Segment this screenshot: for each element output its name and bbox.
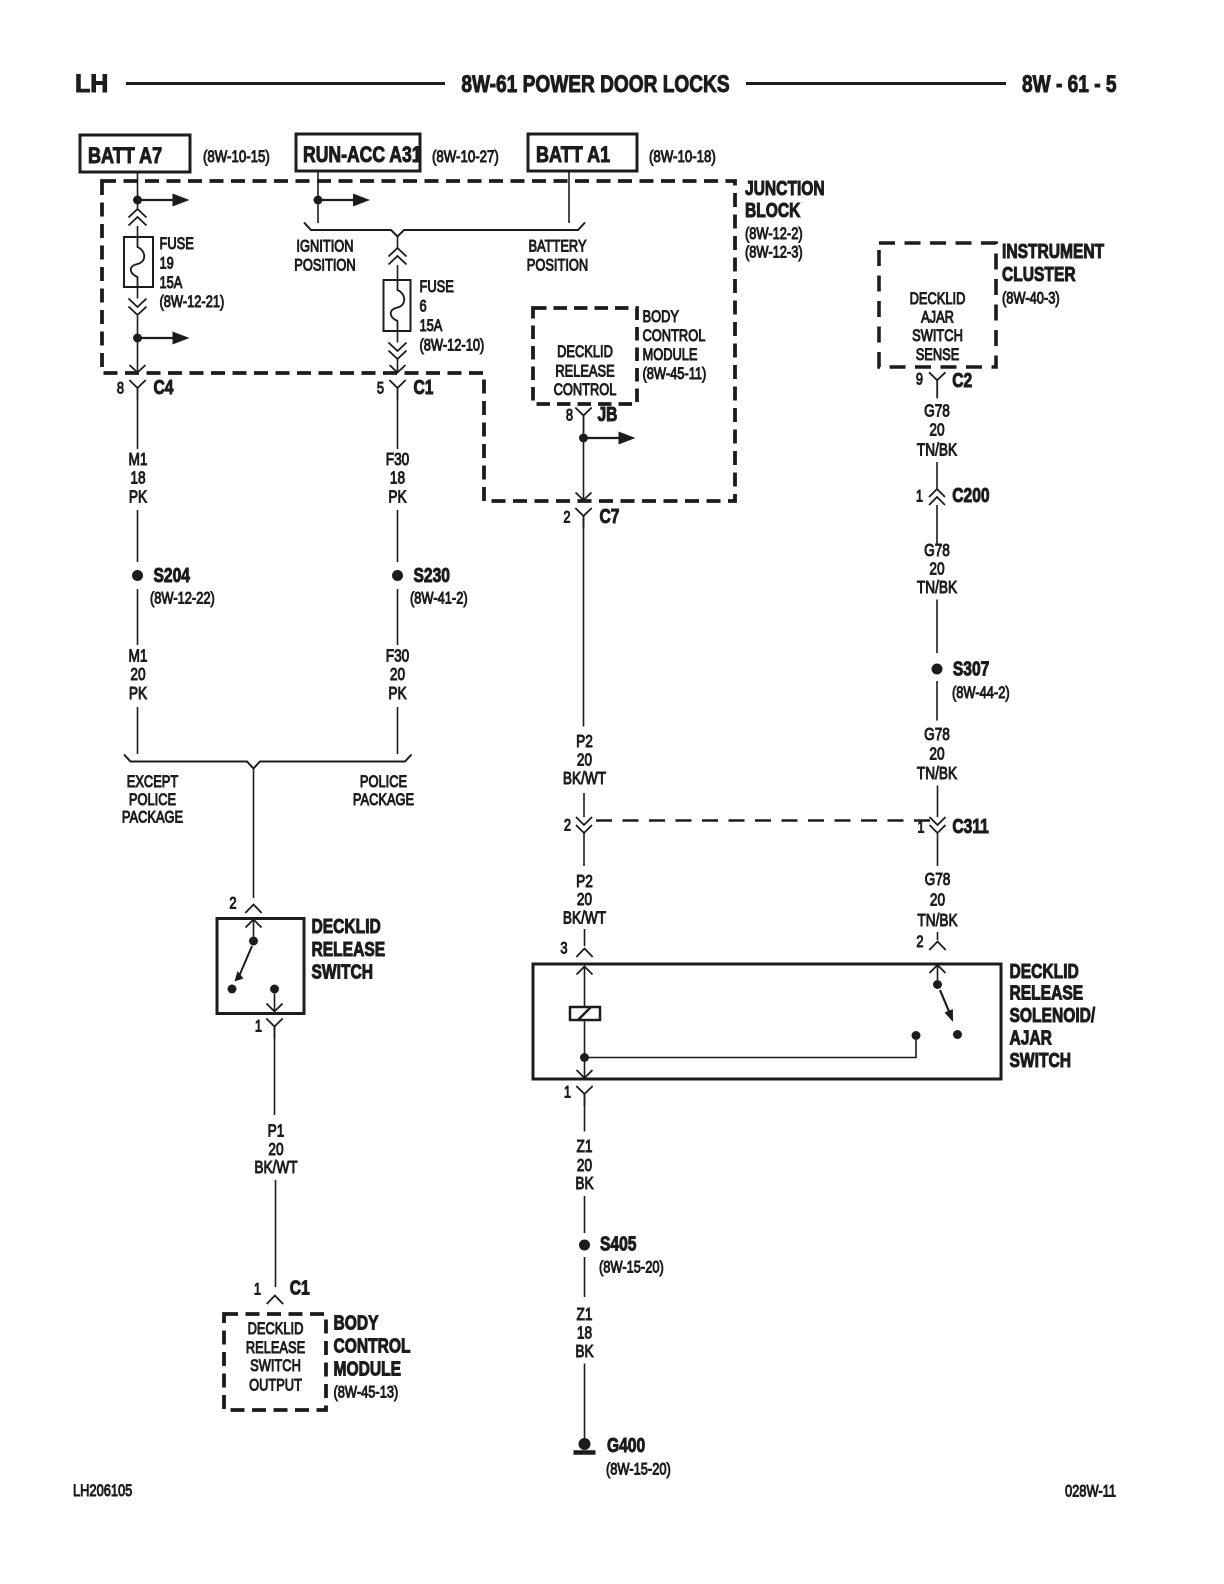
wire [275,1180,277,1287]
svg-text:20: 20 [577,891,592,910]
connector C1 pin 5 [377,376,434,400]
wire [397,707,399,754]
source box BATT A7 [80,135,190,172]
connector C311 pin 1 chevrons [917,815,988,837]
svg-text:BATT A1: BATT A1 [536,143,610,167]
svg-text:RUN-ACC A31: RUN-ACC A31 [303,143,422,167]
svg-text:DECKLID: DECKLID [1010,960,1079,982]
arrowhead into ajar switch [930,965,946,980]
svg-text:SWITCH: SWITCH [912,328,963,346]
wire label P1 20 BK/WT [254,1122,298,1177]
wire [937,833,939,866]
svg-text:LH206105: LH206105 [73,1483,132,1501]
header label LH [75,70,108,98]
decklid ajar switch sense label [910,291,966,365]
fuse 6 [384,280,411,331]
package merge brace [124,755,412,769]
source box BATT A1 [528,134,637,171]
svg-text:POSITION: POSITION [294,257,355,275]
svg-text:(8W-15-20): (8W-15-20) [606,1461,671,1479]
wire with arrowhead to pin 1 [577,1062,593,1078]
wire [936,600,938,654]
svg-text:1: 1 [564,1084,571,1102]
svg-text:PK: PK [129,685,148,704]
wire [253,769,255,898]
svg-text:AJAR: AJAR [1010,1027,1052,1049]
svg-text:18: 18 [130,469,145,488]
decklid release control label [554,344,617,400]
wire [137,226,139,237]
connector C311 dashed link [596,819,930,822]
wire [584,1257,586,1297]
svg-text:S204: S204 [154,564,190,586]
svg-text:(8W-12-10): (8W-12-10) [420,337,485,355]
svg-text:DECKLID: DECKLID [312,915,381,937]
svg-text:POLICE: POLICE [129,792,176,810]
wire to ajar switch contact [589,1040,916,1058]
svg-text:TN/BK: TN/BK [917,579,958,598]
wire label M1 18 PK [129,451,148,507]
fuse terminal chevrons down [389,331,407,359]
header rule right [746,82,1006,85]
source box RUN-ACC A31 [296,134,422,171]
switch pin 2 [229,895,261,913]
svg-text:C2: C2 [952,369,972,391]
splice S405 [579,1233,664,1277]
svg-text:20: 20 [930,891,945,910]
wire [937,786,939,818]
solenoid coil symbol [570,1007,600,1020]
connector C4 pin 8 [117,376,174,400]
svg-text:C1: C1 [290,1277,310,1299]
svg-text:S405: S405 [600,1233,636,1255]
svg-text:BATT A7: BATT A7 [88,144,162,168]
svg-text:SENSE: SENSE [916,347,960,365]
svg-text:6: 6 [420,298,427,316]
wire [397,510,399,562]
fuse terminal chevrons down [129,287,147,315]
connector JB pin 8 [566,403,618,433]
svg-text:POLICE: POLICE [360,774,407,792]
svg-text:F30: F30 [386,647,410,666]
svg-text:RELEASE: RELEASE [1010,982,1084,1004]
svg-text:20: 20 [929,745,944,764]
svg-text:C4: C4 [154,376,174,398]
svg-text:(8W-44-2): (8W-44-2) [952,685,1010,703]
svg-text:DECKLID: DECKLID [557,344,613,362]
wire label Z1 18 BK [575,1306,594,1362]
svg-text:C200: C200 [952,484,989,506]
wire [583,833,585,866]
svg-text:P2: P2 [576,873,593,892]
splice S204 [132,564,215,608]
wire [583,516,585,727]
wire [137,589,139,645]
junction dot with flow arrow [314,194,371,207]
svg-text:JB: JB [598,403,618,425]
junction dot [580,1053,589,1062]
svg-text:F30: F30 [386,451,410,470]
wire [397,359,399,371]
svg-text:SOLENOID/: SOLENOID/ [1010,1004,1096,1026]
svg-text:20: 20 [929,421,944,440]
svg-text:(8W-10-27): (8W-10-27) [432,148,499,167]
reference (8W-10-18) [649,148,716,167]
wire from RUN-ACC A31 [317,171,319,223]
wire [936,505,938,544]
svg-text:20: 20 [390,666,405,685]
svg-text:2: 2 [563,509,570,527]
svg-text:G78: G78 [925,871,951,890]
svg-text:PACKAGE: PACKAGE [122,809,183,827]
svg-text:BK: BK [575,1175,594,1194]
connector C7 pin 2 [563,505,619,528]
svg-text:CLUSTER: CLUSTER [1002,263,1076,285]
switch contact right [270,985,279,994]
header page number 8W - 61 - 5 [1022,70,1117,98]
svg-text:Z1: Z1 [577,1138,593,1157]
solenoid pin 2 [916,934,945,952]
svg-text:3: 3 [560,940,567,958]
svg-text:20: 20 [130,666,145,685]
svg-text:(8W-45-13): (8W-45-13) [334,1384,399,1402]
svg-text:BODY: BODY [643,309,680,327]
arrowhead into connector C7 [576,493,592,501]
wire [397,400,399,449]
junction block dashed outline [102,181,735,501]
svg-text:AJAR: AJAR [921,309,954,327]
wire [397,265,399,280]
svg-text:TN/BK: TN/BK [917,765,958,784]
svg-text:CONTROL: CONTROL [643,328,706,346]
svg-text:8: 8 [117,380,124,398]
svg-text:20: 20 [268,1141,283,1160]
svg-text:028W-11: 028W-11 [1065,1483,1116,1501]
ajar switch throw contact [953,1030,962,1039]
svg-text:PK: PK [388,685,407,704]
svg-text:15A: 15A [160,275,183,293]
wire [397,589,399,645]
label battery position [527,238,588,275]
svg-text:PACKAGE: PACKAGE [353,792,414,810]
wire with arrowhead to pin 1 [267,994,283,1012]
svg-text:1: 1 [917,819,924,837]
wire [583,793,585,817]
svg-text:PK: PK [388,488,407,507]
arrowhead into switch [246,920,262,937]
svg-text:BK/WT: BK/WT [563,909,607,928]
wire [274,1027,276,1116]
svg-text:TN/BK: TN/BK [917,912,958,931]
svg-text:G400: G400 [607,1434,645,1456]
svg-text:C7: C7 [600,505,620,527]
svg-text:JUNCTION: JUNCTION [745,177,825,199]
svg-text:RELEASE: RELEASE [555,363,614,381]
wire [584,1364,586,1439]
wire [397,237,399,249]
svg-text:8W-61 POWER DOOR LOCKS: 8W-61 POWER DOOR LOCKS [461,70,729,98]
svg-text:BODY: BODY [334,1311,379,1333]
wire label G78 20 TN/BK [917,402,958,460]
body control module dashed box [224,1314,326,1410]
reference (8W-10-27) [432,148,499,167]
svg-text:20: 20 [577,1157,592,1176]
svg-text:SWITCH: SWITCH [250,1358,301,1376]
header rule left [126,82,445,85]
svg-text:(8W-12-3): (8W-12-3) [745,244,803,262]
splice S230 [392,564,468,608]
svg-text:20: 20 [929,560,944,579]
svg-text:5: 5 [377,380,384,398]
svg-text:FUSE: FUSE [420,279,454,297]
wire [137,342,139,371]
svg-text:DECKLID: DECKLID [910,291,966,309]
svg-text:9: 9 [916,371,923,389]
wire [937,932,939,940]
wire from BATT A1 [568,171,570,223]
svg-text:BLOCK: BLOCK [745,199,800,221]
svg-text:EXCEPT: EXCEPT [127,774,178,792]
connector C1 pin 1 [254,1277,310,1304]
footer sheet code LH206105 [73,1483,132,1501]
arrowhead into connector C1 [390,365,406,373]
wire [584,1094,586,1132]
wire label G78 20 TN/BK [917,726,958,784]
wire [137,510,139,562]
svg-text:RELEASE: RELEASE [246,1340,305,1358]
wire label G78 20 TN/BK [917,871,958,931]
svg-text:C1: C1 [414,376,434,398]
wire label P2 20 BK/WT [563,873,607,928]
decklid release switch box [217,919,304,1014]
solenoid pin 3 [560,940,592,958]
svg-text:2: 2 [916,934,923,952]
junction dot with flow arrow [133,332,190,345]
decklid release solenoid box [533,964,1001,1079]
svg-text:RELEASE: RELEASE [312,938,386,960]
svg-text:(8W-10-18): (8W-10-18) [649,148,716,167]
svg-text:M1: M1 [129,451,148,470]
svg-text:BK: BK [575,1343,594,1362]
svg-text:1: 1 [916,488,923,506]
wire [137,316,139,334]
svg-text:1: 1 [254,1281,261,1299]
switch contact left [228,985,237,994]
svg-text:FUSE: FUSE [160,236,194,254]
ground G400 [574,1434,671,1479]
svg-text:MODULE: MODULE [643,347,698,365]
connector C311 pin 2 chevrons [564,817,592,835]
wire label M1 20 PK [129,647,148,703]
svg-text:(8W-40-3): (8W-40-3) [1002,290,1060,308]
svg-text:P2: P2 [576,733,593,752]
svg-text:S230: S230 [414,564,450,586]
junction dot with flow arrow [133,194,190,207]
decklid release switch output label [246,1321,305,1395]
svg-text:DECKLID: DECKLID [248,1321,304,1339]
svg-text:(8W-15-20): (8W-15-20) [599,1259,664,1277]
decklid release switch label [312,915,386,983]
fuse 19 label [160,236,225,312]
svg-text:BATTERY: BATTERY [528,238,586,256]
label except police package [122,774,183,827]
svg-text:G78: G78 [924,542,950,561]
svg-text:8W - 61 - 5: 8W - 61 - 5 [1022,70,1117,98]
svg-text:2: 2 [564,817,571,835]
switch pin 1 connector [255,1018,283,1038]
body control module label [334,1311,411,1402]
svg-text:CONTROL: CONTROL [554,382,617,400]
footer drawing number 028W-11 [1065,1483,1116,1501]
wire [137,707,139,754]
fuse 19 [124,237,153,287]
svg-text:BK/WT: BK/WT [563,770,607,789]
svg-text:19: 19 [160,255,174,273]
junction block label [745,177,825,262]
connector C2 pin 9 [916,369,972,398]
svg-text:INSTRUMENT: INSTRUMENT [1002,240,1104,262]
wire label P2 20 BK/WT [563,733,607,789]
connector C200 [916,484,990,506]
svg-text:POSITION: POSITION [527,257,588,275]
svg-text:Z1: Z1 [577,1306,593,1325]
svg-text:LH: LH [75,70,108,98]
svg-text:(8W-12-2): (8W-12-2) [745,226,803,244]
reference (8W-10-15) [203,148,270,167]
wire [936,462,938,489]
decklid release control dashed box [533,308,637,404]
solenoid pin 1 connector [564,1084,593,1106]
svg-text:8: 8 [566,407,573,425]
svg-text:OUTPUT: OUTPUT [249,1377,302,1395]
svg-text:G78: G78 [924,402,950,421]
svg-text:C311: C311 [952,815,988,837]
wire [137,400,139,449]
wire [584,1020,586,1055]
svg-text:BK/WT: BK/WT [254,1159,298,1178]
svg-text:IGNITION: IGNITION [296,238,353,256]
svg-text:20: 20 [577,751,592,770]
arrowhead into solenoid [577,967,593,1008]
header title 8W-61 POWER DOOR LOCKS [461,70,729,98]
wire label Z1 20 BK [575,1138,594,1194]
fuse 6 label [420,279,485,355]
svg-text:18: 18 [577,1324,592,1343]
arrowhead into connector C4 [130,365,146,373]
wire [936,681,938,721]
label police package [353,774,414,810]
svg-text:M1: M1 [129,647,148,666]
svg-text:18: 18 [390,469,405,488]
splice S307 [932,658,1010,703]
fuse terminal chevrons up [389,248,407,265]
svg-text:1: 1 [255,1018,262,1036]
svg-text:S307: S307 [953,658,989,680]
svg-text:(8W-10-15): (8W-10-15) [203,148,270,167]
svg-text:2: 2 [229,895,236,913]
svg-text:PK: PK [129,488,148,507]
svg-text:P1: P1 [268,1122,285,1141]
wire [584,929,586,946]
fuse terminal chevrons up [129,209,147,226]
svg-text:15A: 15A [420,318,443,336]
wire label F30 18 PK [386,451,410,507]
decklid release solenoid ajar switch label [1010,960,1096,1071]
junction dot with flow arrow [579,432,636,445]
wire from BATT A7 [137,172,139,210]
merge brace [304,223,585,237]
svg-text:(8W-41-2): (8W-41-2) [410,590,468,608]
wire [583,442,585,499]
wire label G78 20 TN/BK [917,542,958,598]
instrument cluster label [1002,240,1104,308]
svg-text:(8W-45-11): (8W-45-11) [643,366,707,384]
svg-text:SWITCH: SWITCH [312,961,373,983]
svg-text:(8W-12-22): (8W-12-22) [150,590,215,608]
ajar switch arm with arrowhead [940,990,953,1022]
label ignition position [294,238,355,275]
wire [584,1196,586,1233]
svg-text:CONTROL: CONTROL [334,1335,411,1357]
wire label F30 20 PK [386,647,410,703]
switch common contact [249,937,258,946]
switch arm with arrowhead [235,946,253,982]
ajar switch common contact [933,980,942,989]
svg-text:SWITCH: SWITCH [1010,1049,1071,1071]
svg-text:(8W-12-21): (8W-12-21) [160,294,225,312]
ajar switch lower contact dot [912,1031,921,1040]
svg-text:MODULE: MODULE [334,1358,402,1380]
svg-text:G78: G78 [924,726,950,745]
body control module label (8W-45-11) [643,309,707,384]
instrument cluster dashed box [879,243,996,367]
svg-text:TN/BK: TN/BK [917,441,958,460]
